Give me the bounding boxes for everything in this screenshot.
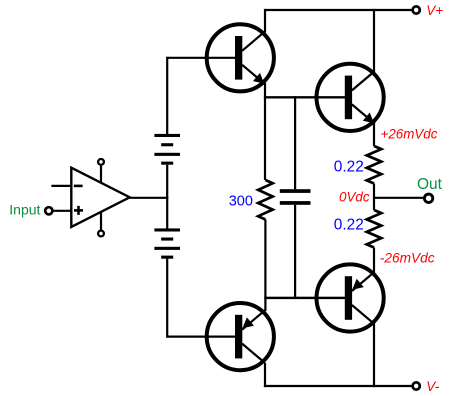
wire op-amp output [130,197,169,199]
wire R1 to Q2 emitter [264,220,266,312]
resistor R1 300 [258,180,273,220]
wire battery B2 to Q2 base [166,259,168,338]
battery B2 [154,228,180,258]
label 0.22 top [334,159,364,176]
terminal V+ [413,6,420,13]
resistor R2 0.22 top [367,146,382,184]
label Input [9,201,40,217]
terminal Out [424,194,432,202]
wire Q4 collector to bottom rail [373,324,375,387]
terminal V- [413,382,420,389]
wire capacitor top lead [294,96,296,189]
wire Q3 emitter to resistor R2 [373,123,375,147]
svg-text:-26mVdc: -26mVdc [380,251,435,266]
transistor Q2 [167,303,274,370]
wire Q2 collector to bottom rail [264,363,266,387]
battery B1 [154,134,180,165]
label V- [426,379,440,394]
wire between R2 and R3 [373,184,375,211]
label 300 [229,194,253,210]
transistor Q1 [167,24,274,91]
wire top rail V+ [265,9,411,11]
transistor Q3 [265,64,384,131]
wire Q3 collector to top rail [373,9,375,72]
svg-text:0.22: 0.22 [334,159,364,176]
svg-text:0Vdc: 0Vdc [339,189,370,204]
wire Q1 collector to top rail [264,9,266,33]
capacitor C1 [280,189,311,205]
terminal Input [45,207,52,214]
label +26mVdc [381,126,438,141]
label 0Vdc [339,189,370,204]
wire R3 to Q4 emitter [373,248,375,272]
resistor R3 0.22 bottom [367,210,382,248]
wire inverting input stub [51,185,71,187]
transistor Q4 [265,264,384,331]
svg-text:300: 300 [229,194,253,210]
svg-text:+26mVdc: +26mVdc [381,126,438,141]
label 0.22 bottom [334,216,364,233]
svg-text:V+: V+ [426,3,443,18]
label Out [417,176,443,193]
label -26mVdc [380,251,435,266]
wire capacitor bottom lead [294,205,296,299]
op-amp U1 [71,159,129,236]
wire Out [374,197,424,199]
wire node to Q4 base [264,297,345,299]
wire non-inverting input [54,210,72,212]
label V+ [426,3,443,18]
svg-text:V-: V- [426,379,440,394]
svg-text:Input: Input [9,201,40,217]
svg-text:0.22: 0.22 [334,216,364,233]
wire battery B1 to junction [166,165,168,229]
wire node to Q3 base [264,96,345,98]
wire bottom rail V- [264,385,412,387]
svg-text:Out: Out [417,176,443,193]
wire Q1 emitter to resistor R1 [264,83,266,180]
wire Q1 base to battery column [166,57,168,134]
